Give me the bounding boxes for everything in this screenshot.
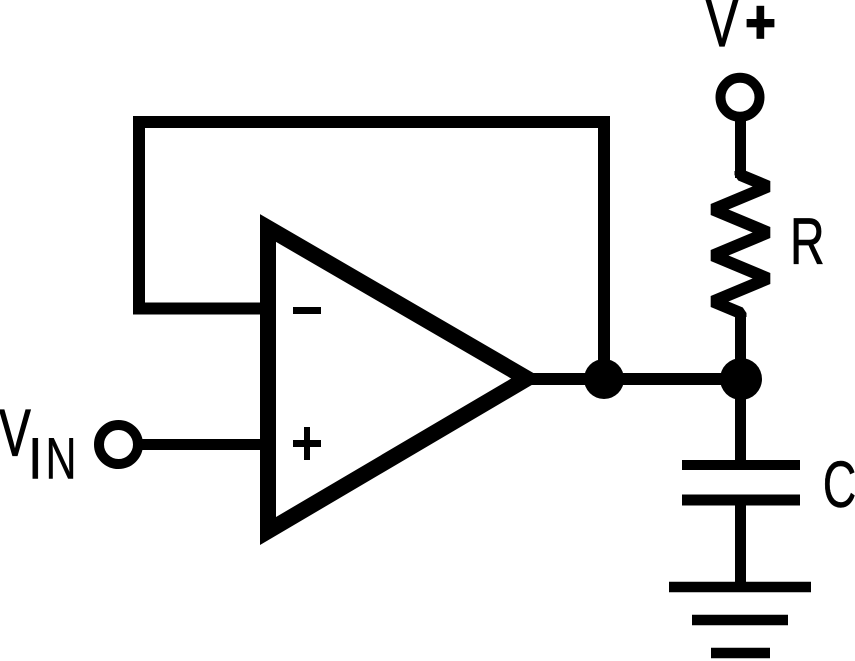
wire feedback loop from - input around to output (139, 122, 604, 379)
svg-text:I: I (28, 427, 43, 492)
resistor R (713, 171, 768, 317)
wire VIN to op-amp + input (138, 439, 272, 450)
node output junction (584, 359, 624, 399)
svg-text:N: N (45, 425, 76, 491)
terminal V+ (721, 78, 760, 117)
label V+ (706, 0, 774, 61)
op-amp non-inverting input marker (plus) (293, 427, 321, 460)
label VIN (0, 397, 76, 492)
svg-text:R: R (790, 206, 825, 279)
wire node to capacitor (735, 379, 746, 465)
op-amp inverting input marker (minus) (293, 307, 321, 314)
ground (669, 587, 811, 653)
wire capacitor to ground (735, 500, 746, 587)
svg-text:V: V (706, 0, 739, 61)
wire V+ terminal to resistor (735, 117, 746, 178)
wire op-amp output to junction (530, 373, 741, 385)
svg-text:V: V (0, 397, 31, 470)
op-amp U1 (268, 228, 527, 531)
terminal VIN (99, 425, 138, 464)
node R-C junction (720, 358, 762, 400)
svg-text:C: C (823, 449, 855, 522)
wire resistor to node (735, 313, 746, 379)
capacitor C (682, 465, 800, 500)
